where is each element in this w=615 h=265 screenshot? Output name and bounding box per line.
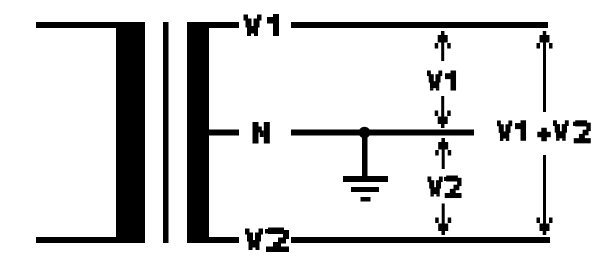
- transformer T1 secondary winding: [187, 22, 209, 243]
- wire secondary center-tap stub: [209, 130, 239, 136]
- node V1 label: [244, 14, 280, 36]
- dimension arrow V1 upper (up arrowhead): [435, 31, 451, 61]
- wire ground stem: [362, 132, 368, 180]
- dimension label V1: [427, 71, 456, 91]
- wire secondary bottom stub: [209, 237, 239, 243]
- dimension arrow V1+V2 lower (down arrowhead): [537, 155, 553, 235]
- node N label: [253, 122, 270, 144]
- node V2 label: [245, 228, 289, 253]
- transformer T1 core: [163, 22, 169, 243]
- wire secondary top stub: [209, 22, 239, 28]
- dimension label V2: [428, 176, 462, 199]
- dimension arrow V2 lower (down arrowhead): [435, 204, 451, 236]
- dimension arrow V1+V2 upper (up arrowhead): [537, 31, 553, 112]
- wire N rail: [291, 130, 474, 136]
- dimension arrow V1 lower (down arrowhead): [435, 96, 451, 128]
- dimension label V1+V2: [497, 120, 591, 143]
- dimension arrow V2 upper (up arrowhead): [435, 138, 451, 169]
- junction dot: [359, 127, 371, 139]
- wire V2 bottom rail: [291, 237, 550, 243]
- transformer T1 primary winding: [36, 22, 145, 243]
- ground: [343, 176, 388, 202]
- wire V1 top rail: [291, 22, 548, 28]
